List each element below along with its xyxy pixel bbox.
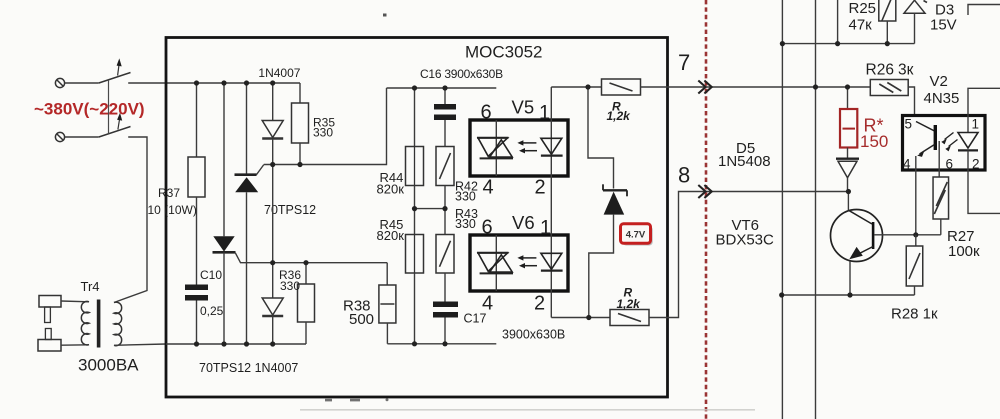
svg-text:70TPS12 1N4007: 70TPS12 1N4007 — [199, 361, 298, 375]
svg-text:1: 1 — [540, 217, 551, 239]
svg-text:3к: 3к — [898, 62, 914, 79]
svg-text:~380V(~220V): ~380V(~220V) — [34, 100, 145, 119]
svg-text:V5: V5 — [512, 97, 535, 118]
svg-text:2: 2 — [535, 177, 546, 199]
svg-text:330: 330 — [455, 190, 476, 204]
svg-text:820к: 820к — [377, 228, 405, 243]
svg-text:R37: R37 — [158, 186, 180, 200]
svg-text:4N35: 4N35 — [924, 90, 960, 107]
svg-text:6: 6 — [946, 157, 954, 172]
svg-text:C16 3900х630В: C16 3900х630В — [420, 67, 503, 81]
svg-text:4: 4 — [903, 157, 911, 172]
svg-text:4.7V: 4.7V — [626, 229, 646, 240]
svg-text:V6: V6 — [512, 212, 535, 233]
svg-text:BDX53C: BDX53C — [716, 232, 775, 249]
svg-text:5: 5 — [905, 117, 913, 132]
svg-text:7: 7 — [678, 50, 690, 75]
svg-text:R28 1к: R28 1к — [891, 306, 938, 323]
svg-text:3900х630В: 3900х630В — [502, 328, 565, 342]
svg-text:1,2k: 1,2k — [607, 109, 632, 123]
svg-text:2: 2 — [972, 157, 980, 172]
svg-text:MOC3052: MOC3052 — [465, 43, 542, 62]
svg-text:6: 6 — [481, 102, 492, 124]
svg-text:150: 150 — [860, 132, 888, 151]
svg-text:0,25: 0,25 — [200, 304, 224, 318]
svg-text:47к: 47к — [849, 17, 873, 34]
svg-text:1: 1 — [539, 102, 550, 124]
svg-text:1N4007: 1N4007 — [258, 66, 300, 80]
svg-text:330: 330 — [455, 217, 476, 231]
svg-text:15V: 15V — [930, 17, 957, 34]
svg-text:C10: C10 — [200, 268, 222, 282]
svg-text:330: 330 — [313, 126, 333, 140]
svg-text:R26: R26 — [866, 62, 894, 79]
svg-text:10 (10W): 10 (10W) — [148, 203, 197, 217]
svg-text:Tr4: Tr4 — [81, 279, 100, 294]
svg-text:6: 6 — [482, 217, 493, 239]
svg-text:70TPS12: 70TPS12 — [264, 203, 316, 217]
svg-text:500: 500 — [349, 311, 374, 328]
svg-text:820к: 820к — [377, 182, 405, 197]
svg-text:100к: 100к — [948, 243, 980, 260]
svg-text:330: 330 — [280, 279, 300, 293]
svg-text:1: 1 — [972, 117, 980, 132]
svg-text:4: 4 — [482, 293, 493, 315]
svg-text:R25: R25 — [849, 0, 877, 17]
svg-text:V2: V2 — [930, 73, 948, 90]
svg-text:1N5408: 1N5408 — [718, 153, 771, 170]
svg-text:1,2k: 1,2k — [617, 297, 642, 311]
svg-text:8: 8 — [678, 163, 690, 188]
svg-text:3000BA: 3000BA — [78, 356, 139, 375]
svg-text:2: 2 — [534, 293, 545, 315]
svg-text:4: 4 — [483, 177, 494, 199]
